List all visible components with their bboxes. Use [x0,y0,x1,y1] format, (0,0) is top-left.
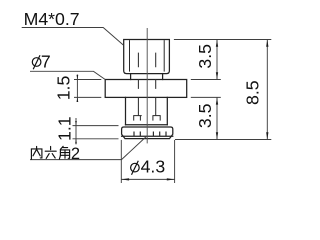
svg-text:1.1: 1.1 [54,116,74,141]
svg-text:2: 2 [71,145,80,163]
svg-text:8.5: 8.5 [243,80,263,105]
svg-text:4.3: 4.3 [141,157,166,177]
svg-text:7: 7 [41,51,51,71]
svg-text:3.5: 3.5 [195,103,215,128]
svg-text:3.5: 3.5 [195,44,215,69]
svg-text:M4*0.7: M4*0.7 [24,9,80,29]
svg-text:1.5: 1.5 [53,76,73,101]
